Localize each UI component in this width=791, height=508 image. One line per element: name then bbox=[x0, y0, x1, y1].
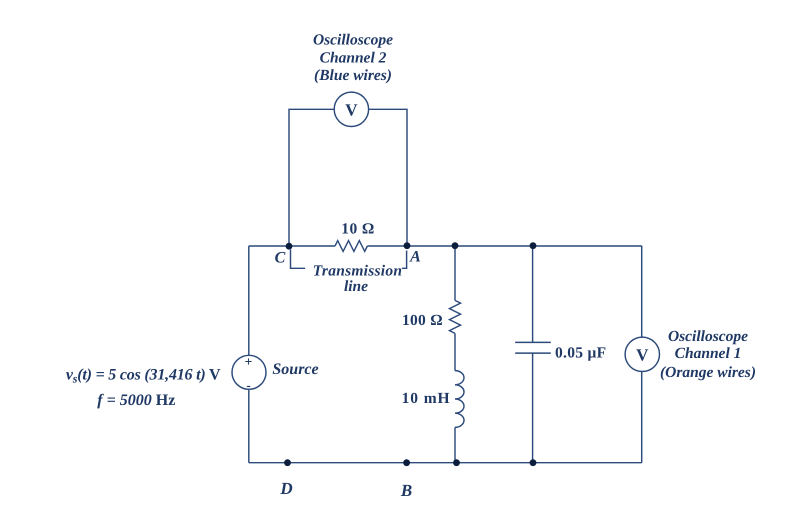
wire main top left bbox=[249, 245, 335, 247]
op meter V1 circle bbox=[625, 337, 659, 371]
wire cap branch lower bbox=[532, 353, 534, 463]
node B bbox=[403, 459, 410, 466]
wire right branch lower bbox=[641, 372, 643, 463]
svg-text:Source: Source bbox=[272, 361, 318, 378]
op meter V2 circle bbox=[334, 92, 368, 126]
node top mid bbox=[452, 242, 459, 249]
wire bottom bbox=[249, 462, 642, 464]
svg-text:10 Ω: 10 Ω bbox=[341, 221, 374, 238]
node top cap bbox=[530, 242, 537, 249]
source VS circle bbox=[232, 355, 266, 389]
svg-text:Channel 2: Channel 2 bbox=[320, 49, 387, 66]
svg-text:V: V bbox=[636, 345, 649, 364]
svg-text:10 mH: 10 mH bbox=[402, 390, 451, 407]
svg-text:V: V bbox=[345, 100, 358, 119]
node bottom mid bbox=[453, 459, 460, 466]
node A bbox=[404, 242, 411, 249]
wire middle branch upper bbox=[454, 246, 456, 301]
svg-text:-: - bbox=[246, 378, 250, 393]
svg-text:100 Ω: 100 Ω bbox=[402, 312, 443, 329]
wire middle branch lower bbox=[454, 427, 456, 462]
wire left branch lower bbox=[248, 389, 250, 462]
capacitor plates bbox=[515, 341, 551, 343]
svg-text:line: line bbox=[344, 278, 368, 295]
node C bbox=[286, 243, 293, 250]
node D bbox=[284, 459, 291, 466]
svg-text:Oscilloscope: Oscilloscope bbox=[313, 31, 393, 48]
svg-text:vs(t) = 5 cos (31,416 t) V: vs(t) = 5 cos (31,416 t) V bbox=[66, 367, 221, 386]
resistor R-tline 10ohm bbox=[335, 241, 367, 252]
svg-text:B: B bbox=[400, 481, 412, 500]
wire top loop right bbox=[369, 109, 407, 245]
wire main top right bbox=[367, 245, 641, 247]
svg-text:(Blue wires): (Blue wires) bbox=[314, 67, 392, 84]
wire cap branch upper bbox=[532, 246, 534, 343]
svg-text:D: D bbox=[279, 479, 292, 498]
svg-text:A: A bbox=[409, 248, 421, 265]
node bottom cap bbox=[530, 459, 537, 466]
wire top loop left bbox=[289, 109, 334, 246]
wire right branch upper bbox=[641, 246, 643, 337]
svg-text:Channel 1: Channel 1 bbox=[675, 345, 742, 362]
svg-text:Oscilloscope: Oscilloscope bbox=[668, 328, 748, 345]
svg-text:f = 5000 Hz: f = 5000 Hz bbox=[97, 392, 175, 409]
svg-text:+: + bbox=[245, 354, 253, 369]
bracket transmission line bbox=[291, 250, 306, 269]
wire left branch upper bbox=[248, 246, 250, 355]
wire middle branch mid bbox=[454, 333, 456, 370]
svg-text:(Orange wires): (Orange wires) bbox=[660, 364, 756, 381]
resistor 100ohm bbox=[450, 300, 461, 333]
svg-text:C: C bbox=[275, 249, 286, 266]
svg-text:0.05 μF: 0.05 μF bbox=[555, 344, 606, 361]
inductor 10mH bbox=[455, 371, 464, 428]
